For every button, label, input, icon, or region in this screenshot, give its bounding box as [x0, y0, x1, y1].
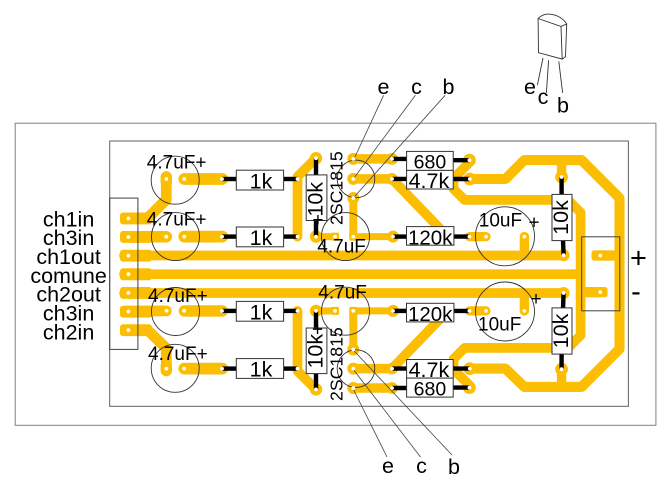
wire: comune stub into minus rail	[570, 269, 578, 279]
lead 680b right	[452, 385, 469, 389]
pad: minus	[588, 287, 608, 297]
svg-text:+: +	[528, 213, 539, 234]
svg-text:10uF: 10uF	[478, 315, 521, 336]
pad: 4.7kb left	[386, 363, 398, 375]
svg-text:+: +	[630, 243, 647, 275]
svg-text:10k: 10k	[549, 313, 573, 348]
lead 680 left	[392, 157, 409, 161]
capacitor 10uF top outline	[476, 207, 535, 266]
svg-text:+: +	[530, 289, 541, 310]
svg-text:1k: 1k	[250, 169, 273, 193]
capacitor C3 outline	[152, 288, 200, 336]
resistor 120k	[407, 226, 454, 249]
lead 4.7kb right	[452, 366, 470, 370]
connector pad ch3in(1)	[120, 231, 152, 243]
wire: ch3in bottom trace to C3	[126, 305, 166, 316]
lead 1k#2 left	[222, 234, 238, 238]
wire: 10k-right2 bottom stub	[557, 369, 566, 384]
lead 1k#4 right	[283, 366, 298, 370]
svg-text:e: e	[382, 454, 394, 478]
TO-92 body top arc	[538, 14, 567, 24]
svg-text:4.7uF+: 4.7uF+	[147, 209, 207, 230]
pad: midcap top left	[331, 233, 339, 241]
wire: D1 diagonal collector to behind 120k	[392, 179, 446, 235]
pad: Q1 e	[347, 153, 359, 165]
capacitor C1 outline	[151, 156, 199, 204]
drill holes	[126, 156, 602, 391]
wire: 10k-right top stub	[557, 163, 566, 177]
capacitor C3 right pad trace to 1k#3	[184, 305, 222, 316]
outer figure border	[15, 123, 656, 425]
pad: 10k-left2 bottom	[310, 383, 322, 395]
wire: 1k right pads vertical bar top	[298, 158, 317, 236]
wire: R6 bar 10k-left to midcap bottom	[316, 307, 335, 314]
pad: C1 left	[161, 173, 172, 185]
resistor R 1k#1	[236, 169, 283, 193]
wire: minus pad bar	[585, 287, 600, 297]
svg-text:e: e	[378, 75, 390, 99]
lead 1k#4 left	[222, 366, 238, 370]
connector pad ch2in	[120, 324, 152, 336]
svg-text:-: -	[631, 276, 641, 308]
capacitor C1 pads and trace to R 1k#1	[184, 173, 222, 185]
resistor 10k-left bottom	[304, 328, 328, 374]
wire: 1k right pads vertical bar bottom	[298, 311, 317, 390]
svg-text:+: +	[312, 210, 323, 231]
pad: 10k-left top	[310, 152, 322, 164]
pad: plus	[592, 250, 612, 260]
wire: plus pad bar	[600, 250, 614, 260]
wire: 10uF bottom right pad bar to R5	[520, 298, 529, 311]
resistor R 1k#3	[236, 301, 283, 325]
capacitor C4 outline	[151, 344, 199, 392]
wire: midcap top to 120k	[353, 233, 393, 240]
lead 4.7k left	[392, 177, 409, 181]
svg-text:4.7uF: 4.7uF	[318, 282, 367, 303]
lead 680b left	[392, 386, 409, 390]
svg-text:4.7uF: 4.7uF	[317, 237, 366, 258]
wire: Q1 emitter trace to 680	[353, 154, 392, 164]
wire: plus rail outer ring	[470, 160, 620, 387]
svg-text:+: +	[312, 320, 323, 341]
connector pad ch1out	[120, 250, 152, 262]
svg-text:ch2in: ch2in	[43, 320, 94, 344]
svg-text:b: b	[443, 75, 455, 99]
pad: midcap bottom left	[331, 307, 339, 315]
lead 10k-right2 top	[561, 293, 566, 309]
pad: 4.7k right	[463, 173, 476, 186]
TO-92 lead e	[537, 58, 543, 85]
TO-92 body side face	[561, 24, 567, 59]
resistor 680b	[407, 378, 454, 400]
TO-92 lead b	[559, 61, 563, 93]
lead 1k#1 left	[222, 177, 238, 181]
wire: Q2 emitter trace to 680b	[353, 383, 392, 393]
pad: Q1 b	[347, 192, 359, 204]
svg-text:10k: 10k	[549, 200, 573, 235]
pad: 10k-right bottom	[558, 249, 570, 261]
pad: Q1 c	[347, 173, 359, 185]
capacitor C2 outline	[152, 213, 200, 261]
transistor Q2 outline	[337, 350, 375, 388]
pad: 10k-right2 bottom	[555, 363, 568, 376]
resistor 120k2	[407, 303, 454, 326]
svg-text:2SC1815: 2SC1815	[327, 327, 347, 401]
svg-text:1k: 1k	[250, 358, 273, 382]
wire: D1b diagonal collector to behind 120k2	[392, 313, 446, 369]
callout line Q1 e	[354, 95, 384, 159]
wire: 10uF top right pad bar to R3	[520, 237, 529, 251]
svg-text:1k: 1k	[250, 226, 273, 250]
lead 10k-left2 bottom	[314, 374, 318, 390]
callout line Q1 b	[353, 95, 445, 198]
connector pad ch2out	[120, 287, 152, 299]
lead 10k-left top	[314, 158, 318, 176]
lead 10k-right bottom	[561, 240, 566, 256]
svg-text:120k: 120k	[408, 303, 453, 326]
svg-text:120k: 120k	[408, 226, 453, 249]
lead 1k#1 right	[283, 177, 298, 181]
lead 120k2 right	[453, 309, 470, 313]
wire: ch3in top trace to C2	[126, 231, 166, 243]
pad: 680 left	[386, 153, 398, 165]
TO-92 lead c	[546, 60, 548, 93]
resistor 10k-left top	[304, 175, 328, 221]
resistor 680	[407, 151, 454, 173]
svg-text:1k: 1k	[250, 301, 273, 325]
capacitor midcap bottom outline	[322, 287, 370, 335]
lead 10k-right2 bottom	[559, 354, 563, 369]
capacitor C2 right pad trace to 1k#2	[184, 231, 222, 243]
resistor 4.7kb	[407, 358, 454, 382]
svg-text:c: c	[416, 454, 427, 478]
outlines	[15, 95, 656, 457]
pad: 120k2 left	[387, 305, 399, 317]
wire: 120k to 10uF top bar	[469, 232, 486, 241]
component leads (black)	[222, 158, 564, 389]
pad: 10k-left2 top	[310, 305, 322, 317]
resistor 4.7k	[407, 169, 454, 193]
capacitor 10uF bottom outline	[476, 282, 535, 341]
callout line Q2 e	[353, 388, 387, 457]
pad: 120k left	[387, 231, 399, 243]
connector pad comune	[120, 268, 152, 280]
power connector outline	[582, 237, 620, 311]
svg-text:4.7uF+: 4.7uF+	[148, 344, 208, 365]
wire: Q2 collector trace to 4.7kb	[353, 364, 392, 374]
pad: Q2 b	[347, 344, 359, 356]
pad: 680b right	[463, 381, 476, 394]
board outline	[110, 141, 629, 406]
svg-text:4.7k: 4.7k	[409, 169, 450, 193]
lead 4.7k right	[452, 177, 470, 181]
TO-92 body front face	[538, 19, 562, 60]
lead 120k right	[453, 234, 470, 238]
lead 4.7kb left	[392, 366, 409, 370]
transistor Q1 outline	[337, 160, 375, 198]
svg-text:2SC1815: 2SC1815	[327, 151, 347, 225]
pad: 680 right	[463, 154, 476, 167]
pad: midcap bottom right	[349, 307, 357, 315]
wire: ch2out long trace R5	[124, 288, 564, 298]
wire: Q1 collector trace to 4.7k	[353, 174, 392, 184]
pad: 10k-right top	[555, 171, 568, 184]
connector pad ch1in	[120, 213, 152, 225]
wire: 120k2 to 10uF2 bottom bar	[469, 306, 486, 315]
resistor R 1k#4	[236, 358, 283, 382]
pad: 680b left	[386, 382, 398, 394]
transistor TO-92 package drawing	[537, 14, 566, 93]
callout line Q1 c	[353, 95, 415, 179]
wire: midcap bottom to 120k2	[353, 307, 393, 314]
svg-text:e: e	[524, 75, 536, 99]
pad: Q2 c	[347, 363, 359, 375]
lead 680 right	[452, 158, 469, 162]
svg-text:c: c	[411, 75, 422, 99]
lead 10k-left bottom	[314, 219, 318, 237]
callout line Q2 c	[353, 369, 421, 457]
wire: transistor Q1 base trace down	[349, 198, 357, 237]
connector pad ch3in(2)	[120, 306, 152, 318]
pad: 10k-left bottom	[310, 230, 322, 242]
wire: ch1in diagonal to C1	[128, 177, 166, 219]
svg-text:b: b	[557, 94, 569, 118]
svg-text:4.7uF+: 4.7uF+	[147, 153, 207, 174]
capacitor C4 right pad trace to 1k#4	[184, 363, 222, 375]
pad: C4 left	[161, 363, 172, 375]
lead 10k-right top	[559, 177, 563, 195]
resistor 10k-right2	[549, 308, 573, 354]
svg-text:10uF: 10uF	[479, 211, 522, 232]
svg-text:680: 680	[414, 378, 447, 400]
callout line Q2 b	[353, 350, 452, 456]
svg-text:4.7uF+: 4.7uF+	[148, 286, 208, 307]
resistor 10k-right	[549, 194, 573, 240]
wire: R2 bar 10k-left to midcap top	[316, 233, 335, 240]
wire: 680 S-trace to minus rail top	[454, 160, 581, 387]
wire: ch2in diagonal to C4	[128, 330, 166, 371]
lead 120k left	[393, 234, 408, 238]
pad: midcap top right	[349, 233, 357, 241]
wire: comune long trace R4	[124, 269, 581, 279]
svg-text:b: b	[448, 455, 460, 479]
lead 1k#2 right	[283, 234, 298, 238]
lead 1k#3 right	[283, 309, 298, 313]
lead 120k2 left	[393, 309, 408, 313]
pad: 4.7kb right	[463, 362, 476, 375]
pad: Q2 e	[347, 382, 359, 394]
wire: transistor Q2 base trace up	[349, 311, 357, 350]
pad: 4.7k left	[386, 173, 398, 185]
pad: 10k-right2 top	[558, 287, 570, 299]
connector outline	[110, 198, 138, 349]
resistor R 1k#2	[236, 226, 283, 250]
lead 10k-left2 top	[314, 311, 318, 329]
wire: ch1out long trace R3	[124, 251, 564, 261]
lead 1k#3 left	[222, 309, 238, 313]
capacitor midcap top outline	[322, 213, 370, 261]
